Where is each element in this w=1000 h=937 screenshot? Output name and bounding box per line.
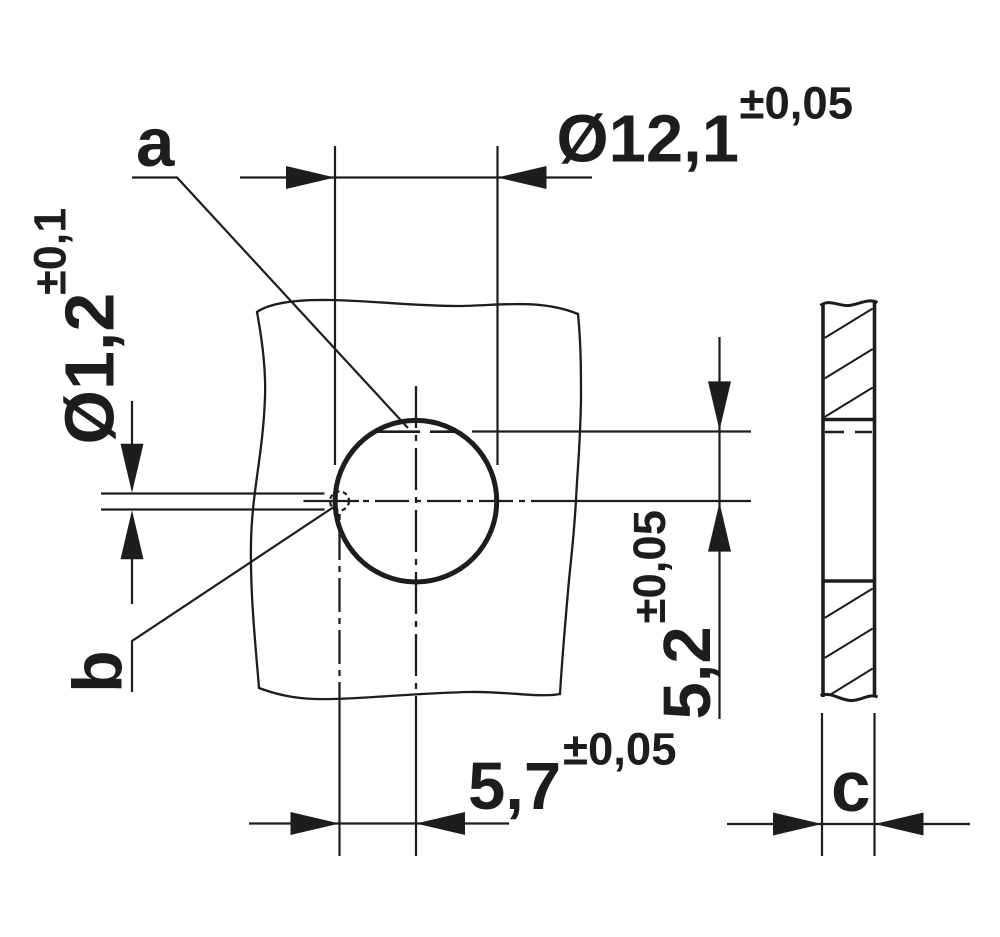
panel side view right edge <box>873 302 877 698</box>
dim D1.2 upper arrow <box>121 444 144 493</box>
vertical centerline of hole b (dash-dot) <box>338 514 340 700</box>
svg-text:±0,05: ±0,05 <box>740 78 854 129</box>
svg-text:5,2: 5,2 <box>650 626 725 719</box>
5.2 dim upper reference line at flat <box>472 430 751 432</box>
dim D12.1 dimension line <box>240 176 592 178</box>
hole a: big circle D12.1 <box>335 420 497 582</box>
dim D12.1 arrow left <box>286 166 335 189</box>
svg-text:±0,05: ±0,05 <box>563 723 677 774</box>
leader b <box>132 508 333 693</box>
horizontal centerline extension right (solid, 5.2 dim lower reference) <box>553 500 751 502</box>
hatching upper section <box>825 309 873 417</box>
svg-text:Ø12,1: Ø12,1 <box>557 102 740 177</box>
dim D12.1 arrow right <box>498 166 547 189</box>
dim 5.7 arrow left <box>291 812 340 835</box>
leader a <box>132 178 408 429</box>
dim 5.2 upper arrow <box>708 381 731 430</box>
panel side view top break edge <box>821 301 878 306</box>
horizontal centerline of hole a (dash-dot) <box>363 500 553 502</box>
svg-text:c: c <box>831 748 871 827</box>
panel side view bottom break edge <box>821 694 878 700</box>
dim 5.2 lower arrow <box>708 503 731 552</box>
vertical centerline of hole a (dash-dot) <box>415 386 417 700</box>
hatching lower section <box>825 589 873 695</box>
dim c extension line right <box>873 713 875 856</box>
dim c extension line left <box>821 713 823 856</box>
dim D12.1 extension line left <box>334 146 336 465</box>
dim D1.2 extension line upper <box>101 492 325 494</box>
svg-text:5,7: 5,7 <box>468 749 561 824</box>
dim D12.1 extension line right <box>496 146 498 465</box>
panel front view outline (broken-out wavy square) <box>251 300 581 699</box>
dim c arrow left <box>773 813 822 836</box>
svg-text:±0,05: ±0,05 <box>624 510 675 624</box>
svg-text:±0,1: ±0,1 <box>25 208 76 295</box>
dim D1.2 upper arrow line <box>131 401 133 460</box>
dim D1.2 lower arrow line <box>131 540 133 604</box>
svg-text:Ø1,2: Ø1,2 <box>51 293 129 445</box>
vertical centerline extension of hole a (solid, 5.7 dim extension) <box>415 700 417 856</box>
panel side view left edge <box>821 303 825 697</box>
hidden chord (flat) dashed line in front view <box>374 430 458 433</box>
svg-text:a: a <box>136 104 175 181</box>
hole b: small dashed circle D1.2 <box>330 492 349 511</box>
side view hidden flat line (dashed) <box>825 431 872 433</box>
dim 5.2 dimension line <box>718 337 720 719</box>
vertical centerline extension of hole b (solid, 5.7 dim extension) <box>338 700 340 856</box>
dim D1.2 extension line lower <box>101 508 325 510</box>
dim c arrow right <box>875 813 924 836</box>
dim 5.7 dimension line <box>249 822 509 824</box>
dim 5.7 arrow right <box>416 812 465 835</box>
side view hole bottom edge <box>823 579 875 582</box>
dim c dimension line <box>727 823 970 825</box>
side view hole top edge <box>823 418 875 421</box>
dim D1.2 lower arrow <box>121 510 144 559</box>
svg-text:b: b <box>59 650 137 693</box>
horizontal centerline solid segment through hole b <box>304 500 360 502</box>
